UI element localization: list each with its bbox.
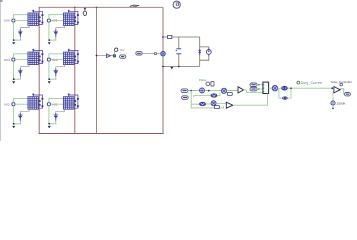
wire top DC bus: [39, 6, 164, 8]
ammeter: [161, 52, 165, 56]
diode branch U02: [33, 95, 43, 108]
wire gate top L U02: [13, 98, 28, 102]
source stub wire U02: [20, 109, 29, 124]
comparator A: [238, 87, 244, 93]
switch block U03: [63, 52, 74, 65]
source stub wire U01: [56, 109, 65, 124]
ground arrow U06: [12, 42, 15, 44]
wire gate top L U06: [13, 15, 28, 19]
wire right rail: [162, 7, 164, 133]
sensor arrow: [107, 54, 111, 58]
current label iL on top bus: [130, 5, 139, 7]
arrow refB: [258, 88, 260, 90]
switch block U02: [28, 97, 39, 110]
wire rowA seg2: [205, 90, 222, 92]
block abs rowB: [211, 93, 218, 97]
current arrow glyph U04: [18, 68, 23, 76]
wire compA to mux: [244, 90, 263, 92]
node dot load top: [162, 36, 164, 38]
node dot U04: [13, 78, 15, 80]
node dot rowA: [190, 90, 192, 92]
clock block: [173, 1, 180, 8]
block 1/T: [272, 86, 277, 91]
wire split DB: [279, 88, 282, 98]
svg-text:U02: U02: [4, 102, 10, 106]
wire rowC to comparator: [216, 102, 226, 104]
wire rowB out: [217, 92, 220, 95]
wire load top: [163, 36, 200, 38]
right pins U04: [39, 56, 41, 62]
wire gate to switch U04: [15, 59, 28, 61]
svg-text:U04: U04: [4, 58, 10, 62]
wire green dropper: [191, 91, 199, 105]
source stub wire U04: [20, 65, 29, 80]
node dot bus col2: [74, 7, 76, 9]
wire gate down U01: [48, 106, 50, 124]
node dot merge: [290, 87, 292, 89]
memory rect rowA: [227, 92, 232, 95]
wire gate top L U01: [49, 98, 64, 102]
port Pulse_in: [181, 89, 188, 93]
right pins U05: [74, 16, 76, 22]
gate port circle U03: [47, 58, 50, 61]
wire rowA: [188, 90, 200, 92]
wire const to gain: [332, 92, 334, 101]
top pin U04: [32, 49, 34, 52]
pulse icon circle: [206, 82, 210, 86]
green return wire U03: [49, 78, 56, 80]
switch block U06: [28, 13, 39, 26]
top pin U05: [68, 10, 70, 13]
current arrow glyph U05: [54, 29, 59, 37]
switch block U05: [63, 13, 74, 26]
ground arrow U04: [12, 81, 15, 83]
svg-text:Duty_Curren: Duty_Curren: [301, 81, 322, 85]
current arrow load bottom: [170, 67, 173, 69]
probe circle Pw: [114, 48, 118, 55]
top pin U03: [68, 49, 70, 52]
voltage probe on top bus: [83, 7, 86, 15]
wire gate top L U04: [13, 54, 28, 58]
block GB: [281, 86, 288, 91]
wire gate down U04: [12, 61, 14, 79]
wire port2 riser: [194, 96, 211, 98]
svg-text:Pulse: Pulse: [199, 78, 207, 82]
right pins U02: [39, 100, 41, 106]
green return wire U05: [49, 39, 56, 41]
ground arrow U05: [48, 42, 51, 44]
top pin U06: [32, 10, 34, 13]
diode branch U04: [33, 50, 43, 63]
green return wire U04: [14, 78, 21, 80]
node dot tap: [96, 55, 98, 57]
port refB: [250, 87, 257, 91]
right pins U06: [39, 16, 41, 22]
wire rowC seg: [206, 103, 211, 105]
window left border: [0, 0, 2, 141]
goal oval chain: [136, 52, 142, 55]
node dot U02: [13, 123, 15, 125]
goal oval Pw: [120, 55, 126, 58]
gate port circle U02: [12, 103, 15, 106]
wire gate down U06: [12, 22, 14, 40]
const stub dot: [332, 105, 334, 109]
source circle load: [206, 48, 211, 55]
diode branch U05: [69, 11, 79, 24]
wire green lower bus: [191, 104, 223, 108]
current arrow glyph U01: [54, 113, 59, 121]
wire gate top L U05: [49, 15, 64, 19]
node dot bus mid: [96, 7, 98, 9]
comparator C: [226, 102, 233, 108]
tag circle Duty: [297, 81, 300, 84]
node dot cap bottom: [178, 66, 180, 68]
wire gate to switch U06: [15, 20, 28, 22]
top pin U02: [32, 93, 34, 96]
ground arrow U02: [12, 126, 15, 128]
switch block U04: [28, 52, 39, 65]
node dot U06: [13, 39, 15, 41]
node dot U05: [48, 39, 50, 41]
wire DB merge: [288, 88, 291, 98]
port comp_in: [182, 96, 189, 100]
right pins U03: [74, 56, 76, 62]
gain triangle: [334, 87, 340, 93]
diode branch U06: [33, 11, 43, 24]
pulse icon rect: [211, 81, 214, 86]
sensor junction block: [113, 55, 115, 57]
wire load bottom: [163, 66, 200, 68]
wire to gain: [288, 87, 333, 89]
diode branch U01: [69, 95, 79, 108]
multiplier rowC: [211, 101, 216, 106]
wire gate down U05: [48, 22, 50, 40]
arrow refA: [258, 84, 260, 86]
wire gate down U03: [48, 61, 50, 79]
node dot U03: [48, 78, 50, 80]
current arrow glyph U02: [18, 113, 23, 121]
wire chain to ammeter: [142, 53, 161, 55]
wire gate down U02: [12, 106, 14, 124]
corner mark: [0, 0, 3, 2]
capacitor branch: [176, 37, 182, 67]
port refA: [250, 83, 257, 87]
gate port circle U01: [47, 103, 50, 106]
node dot gain in: [331, 87, 333, 89]
block DB: [282, 96, 288, 99]
wire gate to switch U03: [51, 59, 64, 61]
wire compC to mux bottom: [233, 94, 268, 106]
wire load right branch: [199, 37, 201, 66]
ground arrow U01: [48, 126, 51, 128]
green return wire U02: [14, 123, 21, 125]
current arrow glyph U06: [18, 29, 23, 37]
diode branch U03: [69, 50, 79, 63]
wire bottom DC bus: [39, 133, 164, 135]
wire refB to mux: [257, 88, 263, 90]
wire refA to mux: [257, 84, 263, 86]
source stub wire U05: [56, 26, 65, 41]
right pins U01: [74, 100, 76, 106]
wire rail column2: [74, 7, 76, 133]
top pin U01: [68, 93, 70, 96]
diode load: [198, 49, 201, 54]
gate port circle U06: [12, 19, 15, 22]
gate port circle U04: [12, 58, 15, 61]
wire mid rail: [96, 7, 98, 133]
source stub wire U06: [20, 26, 29, 41]
goal oval gate: [345, 93, 351, 96]
wire gate to switch U01: [51, 103, 64, 105]
wire gate top L U03: [49, 54, 64, 58]
arrow circle on chain: [154, 53, 156, 55]
wire voltmeter tap: [97, 55, 114, 57]
source stub wire U03: [56, 65, 65, 80]
tag circle gate: [340, 83, 343, 86]
wire gain out: [340, 89, 344, 94]
mux block: [263, 82, 269, 93]
block abs rowC: [199, 102, 206, 106]
wire mux out: [269, 87, 273, 89]
switch block U01: [63, 97, 74, 110]
memory rect rowC: [214, 106, 219, 109]
current arrow glyph U03: [54, 68, 59, 76]
wire gate to switch U02: [15, 103, 28, 105]
node dot rowA2: [208, 90, 210, 92]
ground arrow U03: [48, 81, 51, 83]
multiplier rowA: [221, 88, 226, 93]
wire rail column1: [38, 7, 40, 133]
green return wire U01: [49, 123, 56, 125]
const 2500K: [331, 101, 335, 105]
svg-text:2500K: 2500K: [337, 102, 347, 106]
wire load loop: [200, 47, 209, 60]
wire mult to comparator: [227, 90, 238, 92]
node dot load bottom: [162, 66, 164, 68]
green return wire U06: [14, 39, 21, 41]
node dot U01: [48, 123, 50, 125]
svg-text:U06: U06: [4, 19, 10, 23]
fuse box: [168, 35, 172, 38]
wire split GB: [278, 87, 282, 89]
gate port circle U05: [47, 19, 50, 22]
block rounding rowA: [200, 88, 205, 93]
wire gate to switch U05: [51, 20, 64, 22]
